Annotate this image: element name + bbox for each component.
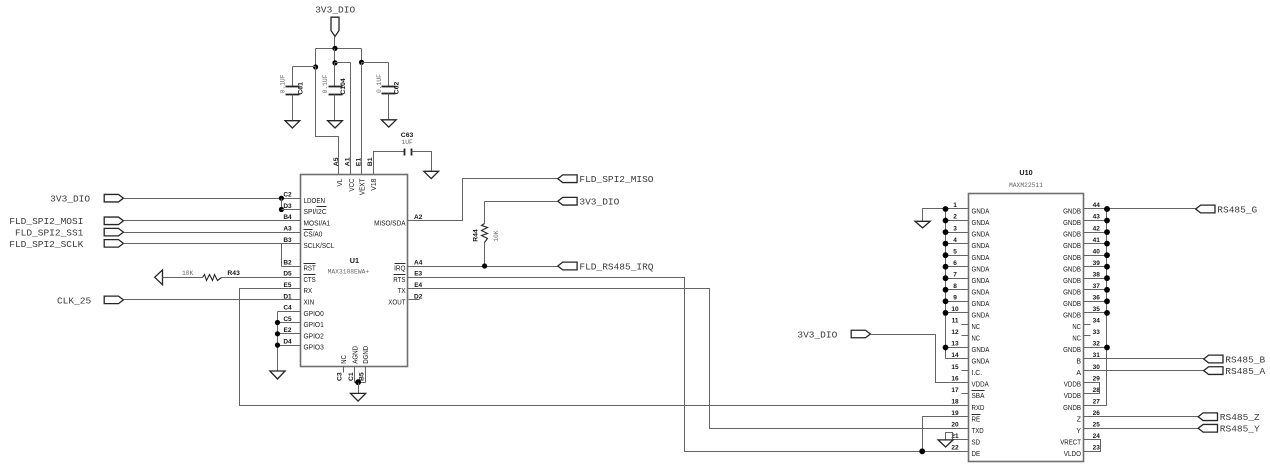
svg-text:MOSI/A1: MOSI/A1 <box>304 220 331 227</box>
svg-text:RS485_A: RS485_A <box>1225 366 1265 377</box>
U1 pin C3 NC stub <box>343 367 345 373</box>
op-amp U10 MAXM22511 body <box>969 168 1084 462</box>
svg-text:FLD_SPI2_SS1: FLD_SPI2_SS1 <box>15 228 84 239</box>
U10 pin 6 GNDA <box>943 260 990 273</box>
junction node AGND-DGND <box>355 379 361 385</box>
svg-text:RS485_G: RS485_G <box>1217 204 1257 215</box>
svg-text:37: 37 <box>1093 283 1101 290</box>
U1 pin A4 IRQ <box>394 259 423 272</box>
wire RS485_Z <box>1084 416 1199 418</box>
U10 pin 16 VDDA <box>951 375 989 388</box>
svg-text:U10: U10 <box>1019 168 1032 177</box>
resistor R44 <box>473 224 500 243</box>
svg-text:8: 8 <box>953 283 957 290</box>
svg-text:SPI/I2C: SPI/I2C <box>304 209 327 216</box>
capacitor C62 <box>376 74 401 94</box>
ground <box>351 393 366 401</box>
svg-text:GNDA: GNDA <box>972 243 990 250</box>
junction node rail <box>332 46 337 51</box>
U10 pin 43 GNDB <box>1063 214 1110 227</box>
svg-text:NC: NC <box>972 324 981 331</box>
svg-text:0.1UF: 0.1UF <box>280 74 287 93</box>
U10 pin 7 GNDA <box>943 271 990 284</box>
svg-text:A5: A5 <box>333 157 340 166</box>
junction node SPI/I2C <box>279 207 284 212</box>
svg-text:RS485_Y: RS485_Y <box>1220 424 1260 435</box>
U1 pin D2 XOUT stub <box>409 299 420 301</box>
U1 pin E4 TX <box>398 282 423 295</box>
svg-text:3: 3 <box>953 225 957 232</box>
svg-text:I.C.: I.C. <box>972 370 983 377</box>
svg-text:B3: B3 <box>283 237 292 244</box>
U10 pin 9 GNDA <box>943 295 990 308</box>
svg-text:23: 23 <box>1093 445 1101 452</box>
wire to U1 ground <box>358 383 360 394</box>
svg-text:D3: D3 <box>283 203 292 210</box>
svg-text:VLDO: VLDO <box>1064 451 1082 458</box>
svg-text:V18: V18 <box>371 179 378 191</box>
U10 pin 30 A <box>1076 364 1100 377</box>
U10 pin 2 GNDA <box>943 214 990 227</box>
U10 pin 33 NC <box>1072 329 1100 342</box>
power flag 3V3_DIO <box>315 4 355 36</box>
svg-text:GNDA: GNDA <box>972 301 990 308</box>
svg-text:VDDA: VDDA <box>972 382 989 389</box>
U1 pin B4 MOSI/A1 <box>283 214 330 227</box>
wire GNDA to ground <box>923 209 946 222</box>
U1 pin D5 CTS <box>283 271 316 284</box>
svg-text:GPIO3: GPIO3 <box>304 345 324 352</box>
U10 pin 22 DE <box>951 445 980 458</box>
svg-text:7: 7 <box>953 271 957 278</box>
wire TX to TXD <box>408 289 969 429</box>
svg-text:VEXT: VEXT <box>359 178 366 195</box>
svg-text:MAX3108EWA+: MAX3108EWA+ <box>328 269 370 276</box>
U1 pin E2 GPIO2 <box>284 327 324 340</box>
U10 pin 35 GNDB <box>1063 306 1110 319</box>
U10 pin 8 GNDA <box>943 283 990 296</box>
svg-text:3V3_DIO: 3V3_DIO <box>797 329 837 340</box>
svg-text:39: 39 <box>1093 260 1101 267</box>
U10 pin 26 Z <box>1077 410 1101 423</box>
svg-text:20: 20 <box>951 422 959 429</box>
U1 pin A2 MISO/SDA <box>374 214 423 227</box>
svg-text:4: 4 <box>953 237 957 244</box>
svg-text:B2: B2 <box>283 259 292 266</box>
svg-text:24: 24 <box>1093 433 1101 440</box>
svg-text:33: 33 <box>1093 329 1101 336</box>
capacitor C63 <box>401 132 414 156</box>
wire GPIO1 <box>278 322 301 324</box>
port RS485_A <box>1204 366 1266 377</box>
svg-text:RXD: RXD <box>972 405 985 412</box>
wire rail to C62 branch <box>361 49 363 63</box>
svg-text:0.1UF: 0.1UF <box>376 74 383 93</box>
svg-text:SBA: SBA <box>972 393 985 400</box>
ground <box>938 440 953 447</box>
ground <box>285 121 300 128</box>
junction node GPIO2 <box>275 331 280 336</box>
U10 pin 36 GNDB <box>1063 295 1110 308</box>
U10 pin 3 GNDA <box>943 225 990 238</box>
wire rail to C104 <box>334 49 336 63</box>
svg-text:C4: C4 <box>283 305 292 312</box>
wire branch to C62 <box>362 63 389 87</box>
wire IRQ <box>408 266 558 268</box>
wire MOSI <box>124 220 301 222</box>
svg-text:RS485_Z: RS485_Z <box>1220 412 1260 423</box>
svg-text:GNDA: GNDA <box>972 209 990 216</box>
U10 pin 25 Y <box>1076 422 1100 435</box>
svg-text:A4: A4 <box>414 259 423 266</box>
wire VRECT-VLDO 24-23 <box>1084 440 1101 452</box>
U1 pin E5 RX <box>284 282 313 295</box>
U1 pin D1 XIN <box>283 293 314 306</box>
junction node RE-DE <box>919 448 925 454</box>
svg-text:RE: RE <box>972 416 981 423</box>
svg-text:0.1UF: 0.1UF <box>322 74 329 93</box>
U1 top pin A5 VL <box>333 157 344 186</box>
svg-text:9: 9 <box>953 295 957 302</box>
wire VCC <box>335 63 351 175</box>
svg-text:CLK_25: CLK_25 <box>57 295 92 306</box>
svg-text:GNDB: GNDB <box>1063 278 1081 285</box>
junction node C62 branch <box>359 60 364 65</box>
svg-text:FLD_SPI2_MOSI: FLD_SPI2_MOSI <box>9 216 83 227</box>
svg-text:RTS: RTS <box>393 277 405 284</box>
U1 pin A3 CS/A0 <box>283 226 322 239</box>
U10 pin 15 I.C. <box>951 364 982 377</box>
svg-text:1UF: 1UF <box>402 139 414 146</box>
svg-text:GNDB: GNDB <box>1063 209 1081 216</box>
svg-text:D5: D5 <box>283 271 292 278</box>
wire VDDB 29-28 <box>1084 383 1100 394</box>
wire SPI/I2C pin <box>282 209 301 211</box>
port RS485_Y <box>1198 424 1260 435</box>
wire GNDA bus <box>945 209 947 359</box>
svg-text:CS/A0: CS/A0 <box>304 232 323 239</box>
wire SD to ground <box>946 433 969 440</box>
junction node C61 branch <box>313 64 318 69</box>
U1 pin B3 SCLK/SCL <box>283 237 334 250</box>
svg-text:3V3_DIO: 3V3_DIO <box>315 4 355 15</box>
svg-text:A1: A1 <box>345 157 352 166</box>
U10 pin 13 GNDA <box>943 341 990 354</box>
U10 pin 38 GNDB <box>1063 271 1110 284</box>
svg-text:34: 34 <box>1093 318 1101 325</box>
svg-text:C104: C104 <box>340 78 347 94</box>
svg-text:GNDB: GNDB <box>1063 266 1081 273</box>
U10 pin 37 GNDB <box>1063 283 1110 296</box>
U10 pin 12 NC <box>951 329 980 342</box>
svg-text:3V3_DIO: 3V3_DIO <box>579 197 619 208</box>
svg-text:C2: C2 <box>283 192 292 199</box>
svg-text:MISO/SDA: MISO/SDA <box>374 220 406 227</box>
svg-text:GNDA: GNDA <box>972 278 990 285</box>
U10 pin 20 TXD <box>951 422 983 435</box>
U1 top pin E1 VEXT <box>355 158 366 195</box>
svg-text:GNDB: GNDB <box>1063 347 1081 354</box>
svg-text:16: 16 <box>951 375 959 382</box>
svg-text:GNDB: GNDB <box>1063 313 1081 320</box>
svg-text:VDDB: VDDB <box>1064 393 1081 400</box>
wire AGND <box>354 367 356 383</box>
U10 pin 23 VLDO <box>1064 445 1100 458</box>
svg-text:C61: C61 <box>297 82 304 95</box>
wire RS485_B <box>1084 358 1204 360</box>
wire SCLK to RST <box>282 244 301 267</box>
port FLD_RS485_IRQ <box>558 261 654 272</box>
capacitor C104 <box>322 74 347 94</box>
svg-text:GNDA: GNDA <box>972 313 990 320</box>
svg-text:AGND: AGND <box>352 346 359 364</box>
svg-text:GNDB: GNDB <box>1063 301 1081 308</box>
port FLD_SPI2_MISO <box>558 174 654 185</box>
svg-text:18: 18 <box>951 398 959 405</box>
wire RS485_A <box>1084 370 1204 372</box>
capacitor C61 <box>280 74 305 94</box>
U10 pin 17 SBA <box>951 387 984 400</box>
svg-text:IRQ: IRQ <box>394 266 406 273</box>
U10 pin 31 B <box>1076 352 1100 365</box>
svg-text:GNDA: GNDA <box>972 220 990 227</box>
svg-text:GNDA: GNDA <box>972 347 990 354</box>
svg-text:2: 2 <box>953 214 957 221</box>
svg-text:E1: E1 <box>355 158 362 167</box>
svg-text:C62: C62 <box>394 82 401 95</box>
svg-text:DE: DE <box>972 451 981 458</box>
svg-text:36: 36 <box>1093 295 1101 302</box>
svg-text:VCC: VCC <box>349 179 356 192</box>
svg-text:5: 5 <box>953 248 957 255</box>
U1 bottom pin B5 DGND <box>359 346 371 381</box>
U10 pin 34 NC <box>1072 318 1100 331</box>
svg-text:NC: NC <box>972 336 981 343</box>
U1 pin B2 RST <box>283 259 316 272</box>
wire RTS to DE <box>408 278 969 452</box>
svg-text:CTS: CTS <box>304 277 316 284</box>
svg-text:GNDA: GNDA <box>972 255 990 262</box>
svg-text:GNDB: GNDB <box>1063 405 1081 412</box>
wire branch to C61 <box>293 67 316 87</box>
svg-text:TX: TX <box>398 288 406 295</box>
svg-text:11: 11 <box>952 318 959 325</box>
svg-text:C3: C3 <box>337 372 344 381</box>
svg-text:MAXM22511: MAXM22511 <box>1009 182 1043 189</box>
wire C104 to ground <box>334 95 336 121</box>
svg-text:GNDB: GNDB <box>1063 232 1081 239</box>
wire C62 to ground <box>388 94 390 120</box>
junction node LDOEN <box>279 196 284 201</box>
U10 pin 29 VDDB <box>1064 375 1100 388</box>
wire GPIO2 <box>278 333 301 335</box>
svg-text:R43: R43 <box>227 270 240 277</box>
wire GPIO chain <box>277 312 279 371</box>
svg-text:29: 29 <box>1093 375 1101 382</box>
port RS485_B <box>1204 354 1266 365</box>
svg-text:25: 25 <box>1093 422 1101 429</box>
port FLD_SPI2_MOSI <box>9 216 123 227</box>
svg-text:GNDA: GNDA <box>972 289 990 296</box>
svg-text:RST: RST <box>304 266 317 273</box>
svg-text:22: 22 <box>951 445 959 452</box>
wire arrow to R43 <box>163 277 203 279</box>
svg-text:E5: E5 <box>284 282 292 289</box>
svg-text:GNDA: GNDA <box>972 266 990 273</box>
svg-text:RX: RX <box>304 288 313 295</box>
wire C104 lead <box>334 63 336 87</box>
svg-text:42: 42 <box>1093 225 1101 232</box>
svg-text:43: 43 <box>1093 214 1101 221</box>
svg-text:VDDB: VDDB <box>1064 382 1081 389</box>
wire R44 to IRQ <box>484 243 486 267</box>
U10 pin 28 VDDB <box>1064 387 1100 400</box>
svg-text:VL: VL <box>337 179 344 187</box>
svg-text:27: 27 <box>1093 398 1101 405</box>
svg-text:D4: D4 <box>283 339 292 346</box>
U10 pin 42 GNDB <box>1063 225 1110 238</box>
wire V18 to C63 <box>374 152 405 175</box>
svg-text:NC: NC <box>1072 324 1081 331</box>
U10 pin 1 GNDA <box>943 202 990 215</box>
svg-text:Y: Y <box>1076 428 1081 435</box>
junction node IRQ <box>482 263 487 268</box>
U10 pin 19 RE <box>951 410 980 423</box>
port 3V3_DIO U10 <box>797 329 870 340</box>
svg-text:A: A <box>1076 370 1081 377</box>
wire 3V3_DIO rail <box>316 48 362 50</box>
U10 pin 4 GNDA <box>943 237 990 250</box>
U10 pin 27 GNDB <box>1063 398 1100 411</box>
wire VL <box>316 67 339 175</box>
svg-text:38: 38 <box>1093 271 1101 278</box>
U1 pin C2 LDOEN <box>283 192 325 205</box>
svg-text:32: 32 <box>1093 341 1101 348</box>
svg-text:B1: B1 <box>367 157 374 166</box>
svg-text:DGND: DGND <box>363 346 370 364</box>
svg-text:3V3_DIO: 3V3_DIO <box>50 194 90 205</box>
wire RS485_Y <box>1084 428 1199 430</box>
wire VEXT <box>361 63 363 175</box>
U10 pin 5 GNDA <box>943 248 990 261</box>
svg-text:A3: A3 <box>283 226 292 233</box>
svg-text:GPIO1: GPIO1 <box>304 322 324 329</box>
wire 3V3_DIO to LDOEN <box>124 198 301 200</box>
svg-text:17: 17 <box>951 387 959 394</box>
svg-text:30: 30 <box>1093 364 1101 371</box>
wire SCLK <box>124 243 301 245</box>
wire LDOEN to SPI/I2C <box>281 199 283 210</box>
svg-text:TXD: TXD <box>972 428 984 435</box>
U1 bottom pin C3 NC <box>337 355 349 381</box>
U10 pin 39 GNDB <box>1063 260 1110 273</box>
U10 pin 44 GNDB <box>1063 202 1110 215</box>
svg-text:R44: R44 <box>473 229 480 242</box>
U1 pin D4 GPIO3 <box>283 339 324 352</box>
svg-text:SCLK/SCL: SCLK/SCL <box>304 243 335 250</box>
U10 pin 40 GNDB <box>1063 248 1110 261</box>
svg-text:GPIO0: GPIO0 <box>304 311 324 318</box>
wire 3V3_DIO stem <box>334 37 336 49</box>
svg-text:6: 6 <box>953 260 957 267</box>
U10 pin 24 VRECT <box>1060 433 1100 446</box>
wire RX to RXD <box>240 289 969 406</box>
svg-text:19: 19 <box>951 410 959 417</box>
U1 pin E3 RTS <box>393 271 422 284</box>
no-connect arrow CTS <box>155 270 163 285</box>
wire R43 to CTS <box>222 277 301 279</box>
wire GNDB bus <box>1084 209 1107 406</box>
svg-text:LDOEN: LDOEN <box>304 198 326 205</box>
svg-text:GNDB: GNDB <box>1063 220 1081 227</box>
svg-text:E3: E3 <box>414 271 422 278</box>
wire C63 to ground <box>412 152 432 172</box>
wire SS1 <box>124 232 301 234</box>
svg-text:FLD_SPI2_MISO: FLD_SPI2_MISO <box>579 174 653 185</box>
wire RS485_G <box>1084 206 1196 212</box>
svg-text:10K: 10K <box>182 270 194 277</box>
svg-text:C1: C1 <box>348 372 355 381</box>
ground <box>270 371 285 379</box>
wire 3V3_DIO to R44 <box>485 202 558 224</box>
junction node GPIO3 <box>275 343 280 348</box>
resistor R43 <box>182 270 240 281</box>
svg-text:NC: NC <box>341 355 348 364</box>
port FLD_SPI2_SS1 <box>15 228 123 239</box>
U1 top pin B1 V18 <box>367 157 378 190</box>
svg-text:GPIO2: GPIO2 <box>304 333 324 340</box>
port 3V3_DIO <box>50 194 123 205</box>
U1 pin C5 GPIO1 <box>283 316 324 329</box>
U1 pin C4 GPIO0 <box>283 305 324 318</box>
svg-text:XOUT: XOUT <box>388 300 406 307</box>
svg-text:Z: Z <box>1077 416 1082 423</box>
U1 pin D2 XOUT <box>388 293 422 306</box>
svg-text:SD: SD <box>972 439 981 446</box>
U10 pin 11 NC <box>952 318 981 331</box>
svg-text:NC: NC <box>1072 336 1081 343</box>
svg-text:FLD_RS485_IRQ: FLD_RS485_IRQ <box>579 261 653 272</box>
wire 3V3_DIO to VDDA <box>871 335 969 383</box>
wire MISO/SDA <box>408 179 558 221</box>
svg-text:C5: C5 <box>283 316 292 323</box>
U1 bottom pin C1 AGND <box>348 346 360 381</box>
U1 top pin A1 VCC <box>345 157 356 191</box>
U10 pin 32 GNDB <box>1063 341 1110 354</box>
svg-text:FLD_SPI2_SCLK: FLD_SPI2_SCLK <box>9 239 83 250</box>
svg-text:GNDB: GNDB <box>1063 289 1081 296</box>
U10 pin 14 GNDA <box>946 352 990 365</box>
svg-text:40: 40 <box>1093 248 1101 255</box>
svg-text:E4: E4 <box>414 282 422 289</box>
svg-text:12: 12 <box>951 329 959 336</box>
svg-text:13: 13 <box>951 341 959 348</box>
wire C61 to ground <box>292 95 294 121</box>
svg-text:U1: U1 <box>350 256 359 265</box>
U10 pin 18 RXD <box>951 398 984 411</box>
wire GPIO0 <box>278 311 301 313</box>
wire DGND <box>355 367 366 383</box>
svg-text:10K: 10K <box>493 230 500 242</box>
port CLK_25 <box>57 295 123 306</box>
svg-text:15: 15 <box>951 364 959 371</box>
svg-text:VRECT: VRECT <box>1060 439 1081 446</box>
svg-text:GNDB: GNDB <box>1063 255 1081 262</box>
svg-text:26: 26 <box>1093 410 1101 417</box>
junction node C104 branch <box>332 60 337 65</box>
svg-text:RS485_B: RS485_B <box>1225 354 1265 365</box>
port RS485_Z <box>1198 412 1260 423</box>
